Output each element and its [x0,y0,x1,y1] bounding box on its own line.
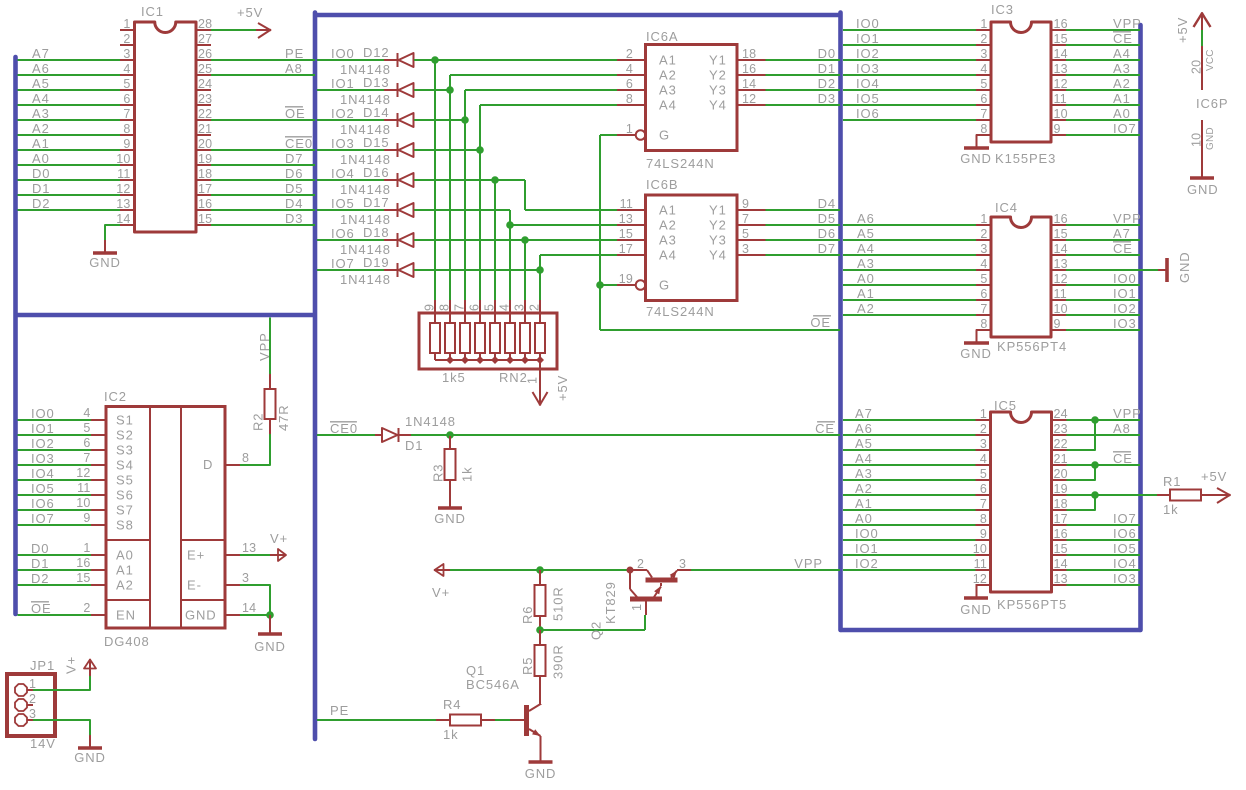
wire net A4 from bus to IC4 [843,254,976,256]
svg-text:28: 28 [198,17,212,31]
svg-text:A7: A7 [855,406,873,421]
svg-text:D3: D3 [285,211,303,226]
wire riser to IC6B A1 [524,180,526,210]
JP1 pad 1 [15,684,27,696]
wire net IO6 from bus to IC2 [18,509,92,511]
svg-text:1: 1 [83,541,90,555]
svg-text:13: 13 [242,541,256,555]
diode D17 1N4148 [384,209,397,211]
svg-text:13: 13 [116,197,130,211]
diode D15 1N4148 [384,149,397,151]
svg-text:9: 9 [742,197,749,211]
wire net IO1 from bus to IC5 [843,554,976,556]
wire net IO3 from IC5 to bus [1067,584,1141,586]
wire D12 output to IC6A A1 [414,59,617,61]
wire net IO6 from bus to IC3 [843,119,976,121]
ground GND at IC2 [269,615,271,634]
svg-text:15: 15 [1054,227,1068,241]
wire net OE from bus to IC2 [18,614,92,616]
wire IC5 pin 18 riser [1067,495,1096,510]
wire net CE from D1 to bus [411,434,840,436]
svg-text:VPP: VPP [1113,211,1142,226]
svg-text:9: 9 [423,304,437,311]
svg-text:74LS244N: 74LS244N [646,304,715,319]
svg-text:V+: V+ [432,585,450,600]
svg-text:D0: D0 [31,541,49,556]
svg-text:R1: R1 [1163,474,1181,489]
svg-text:S7: S7 [116,503,134,518]
wire IC5 pin 22 riser to VPP [1067,420,1096,450]
svg-text:14: 14 [742,77,756,91]
svg-text:11: 11 [974,557,987,571]
wire net VPP from Q2 to bus [691,569,840,571]
svg-text:D14: D14 [363,105,390,120]
svg-text:16: 16 [1054,527,1068,541]
wire OE net to bus [600,329,840,331]
resistor R6 510R [539,570,541,585]
svg-text:IO1: IO1 [856,31,880,46]
svg-text:5: 5 [980,467,987,481]
power symbol IC6P VCC pin [1194,13,1203,28]
wire net OE from IC1 to bus [211,119,315,121]
svg-text:D5: D5 [818,211,836,226]
svg-text:IO4: IO4 [31,466,55,481]
svg-text:3: 3 [980,242,987,256]
wire column4 to IC6A A4 [480,104,617,106]
IC6A pins [617,59,646,61]
ground GND at IC4 pin 13 (rotated) [1158,269,1167,271]
wire net CE0 from IC1 to bus [211,149,315,151]
wire net A7 from bus to IC5 [843,419,976,421]
svg-text:1: 1 [980,407,987,421]
wire net A5 from bus to IC5 [843,449,976,451]
svg-text:A1: A1 [116,563,134,578]
wire net IO7 from bus to diode D19 [317,269,384,271]
wire net IO3 from bus to IC3 [843,74,976,76]
ground GND at IC4 pin 8 [977,330,992,343]
wire IC5 pin 20 riser to CE [1067,465,1096,480]
wire net IO6 from IC5 to bus [1067,539,1141,541]
wire IC2 E+ to V+ arrow [240,554,270,556]
svg-text:D1: D1 [32,181,50,196]
IC IC4 body [991,217,1051,337]
svg-text:+5V: +5V [555,375,570,401]
svg-text:S2: S2 [116,428,134,443]
wire net A6 from bus to IC1 pin 4 [18,74,121,76]
svg-text:A2: A2 [32,121,50,136]
svg-text:2: 2 [29,692,36,706]
svg-text:12: 12 [116,182,130,196]
svg-text:A4: A4 [659,248,677,263]
wire net IO2 from bus to diode D14 [317,119,384,121]
svg-text:RN2: RN2 [499,370,528,385]
svg-text:11: 11 [1054,287,1067,301]
supply +5V arrow at IC1 pin 28 [211,29,257,31]
svg-text:IO2: IO2 [856,46,880,61]
wire net D2 from bus to IC1 pin 13 [18,209,121,211]
svg-text:1k: 1k [460,466,475,482]
wire net A8 at IC5 pin 23 [1067,434,1141,436]
wire net CE0 from bus to D1 [317,434,375,436]
IC1 pins right [196,29,211,31]
svg-text:12: 12 [742,92,756,106]
wire IC2 E- to GND node [240,585,270,615]
wire net A7 from IC4 to bus [1066,239,1140,241]
svg-text:8: 8 [980,122,987,136]
wire net CE from IC3 to bus [1066,44,1140,46]
wire net D0 from bus to IC2 [18,554,92,556]
wire net PE from bus to R4 [317,719,436,721]
svg-text:2: 2 [626,47,633,61]
wire net A4 from bus to IC1 pin 6 [18,104,121,106]
svg-text:D6: D6 [818,226,836,241]
resistor R1 1k [1157,494,1170,496]
node junction G pins [596,281,604,289]
svg-text:IO6: IO6 [856,106,880,121]
wire net VPP from IC3 to bus [1066,29,1140,31]
wire D17 output to column [414,209,510,211]
wire net A6 from bus to IC4 [843,224,976,226]
svg-text:IO7: IO7 [31,511,55,526]
svg-text:IO3: IO3 [1113,571,1137,586]
svg-text:IO7: IO7 [1113,511,1137,526]
resistor R4 1k [436,719,450,721]
svg-text:BC546A: BC546A [466,677,520,692]
svg-text:3: 3 [980,47,987,61]
resistor R3 1k [449,436,451,449]
RN2 common pin to +5V [539,360,541,405]
svg-text:17: 17 [198,182,212,196]
svg-text:IO0: IO0 [1113,271,1137,286]
svg-text:D5: D5 [285,181,303,196]
svg-text:JP1: JP1 [30,658,55,673]
wire net D3 from IC6 to bus [766,104,841,106]
bus top horizontal [313,13,841,18]
svg-text:A0: A0 [857,271,875,286]
wire net PE from IC1 to bus [211,59,315,61]
wire net CE from IC4 to bus [1066,254,1140,256]
wire D15 output to column [414,149,480,151]
svg-text:510R: 510R [551,586,566,621]
svg-text:1: 1 [626,122,633,136]
wire net D2 from IC6 to bus [766,89,841,91]
svg-text:11: 11 [117,167,130,181]
IC2 pins right [225,464,240,466]
wire net IO5 from bus to diode D17 [317,209,384,211]
svg-text:1: 1 [980,17,987,31]
svg-text:PE: PE [285,46,304,61]
svg-text:5: 5 [742,227,749,241]
svg-text:GND: GND [1187,182,1219,197]
svg-text:A1: A1 [1113,91,1131,106]
svg-text:4: 4 [123,62,130,76]
wire net A2 from IC3 to bus [1066,89,1140,91]
svg-text:13: 13 [619,212,633,226]
svg-text:S1: S1 [116,413,134,428]
wire net VPP at IC5 pin 24 [1067,419,1141,421]
svg-text:VPP: VPP [257,332,272,361]
svg-text:17: 17 [1054,512,1068,526]
svg-text:E-: E- [187,578,202,593]
svg-text:A5: A5 [855,436,873,451]
svg-text:K155PE3: K155PE3 [995,151,1056,166]
svg-text:V+: V+ [64,656,79,674]
wire net A4 from bus to IC5 [843,464,976,466]
wire G enable net vertical [600,134,617,136]
wire net A7 from bus to IC1 pin 3 [18,59,121,61]
wire net A1 from bus to IC1 pin 9 [18,149,121,151]
svg-text:D1: D1 [818,61,836,76]
ground GND at JP1 [89,735,91,748]
svg-text:IO1: IO1 [331,76,355,91]
node junction R6/R5/base [536,626,544,634]
wire net IO6 from bus to diode D18 [317,239,384,241]
svg-text:GND: GND [254,639,286,654]
svg-text:Y1: Y1 [709,203,727,218]
svg-text:2: 2 [123,32,130,46]
svg-text:D4: D4 [285,196,303,211]
wire net A0 from bus to IC4 [843,284,976,286]
svg-text:A4: A4 [855,451,873,466]
wire net IO2 from bus to IC2 [18,449,92,451]
svg-text:18: 18 [198,167,212,181]
IC4 pins [976,224,991,226]
svg-text:CE: CE [1113,451,1133,466]
svg-text:6: 6 [626,77,633,91]
svg-text:EN: EN [116,608,136,623]
wire net A0 from IC3 to bus [1066,119,1140,121]
svg-text:16: 16 [1054,17,1068,31]
supply V+ arrow at IC2 E+ [270,554,286,556]
svg-text:A3: A3 [659,233,677,248]
svg-text:9: 9 [83,511,90,525]
wire column8 to IC6B A4 [540,254,617,256]
svg-text:GND: GND [960,151,992,166]
svg-text:A0: A0 [32,151,50,166]
svg-text:15: 15 [1054,542,1068,556]
svg-text:S6: S6 [116,488,134,503]
svg-text:S8: S8 [116,518,134,533]
wire net D5 from IC1 to bus [211,194,315,196]
wire IC2 D output to R2 [240,434,270,465]
svg-text:R4: R4 [443,697,461,712]
svg-text:20: 20 [1054,467,1068,481]
wire net A3 from bus to IC1 pin 7 [18,119,121,121]
svg-text:IO1: IO1 [31,421,55,436]
svg-text:V+: V+ [270,531,288,546]
svg-text:D13: D13 [363,75,390,90]
wire net A0 from bus to IC5 [843,524,976,526]
svg-text:D7: D7 [818,241,836,256]
svg-text:GND: GND [960,346,992,361]
svg-text:IC6P: IC6P [1196,96,1229,111]
svg-text:A1: A1 [855,496,873,511]
svg-text:6: 6 [123,92,130,106]
svg-text:5: 5 [980,272,987,286]
wire net IO2 from bus to IC3 [843,59,976,61]
wire net A4 from IC3 to bus [1066,59,1140,61]
svg-text:7: 7 [83,451,90,465]
svg-text:IO6: IO6 [31,496,55,511]
svg-text:D1: D1 [405,438,423,453]
wire net A0 from bus to IC1 pin 10 [18,164,121,166]
wire net IO1 from bus to IC2 [18,434,92,436]
diode D13 1N4148 [384,89,397,91]
wire D16 output to column [414,179,495,181]
svg-text:3: 3 [980,437,987,451]
svg-text:A2: A2 [659,218,677,233]
svg-text:A3: A3 [855,466,873,481]
svg-text:24: 24 [1054,407,1068,421]
svg-text:R6: R6 [520,606,535,624]
svg-text:CE0: CE0 [285,136,313,151]
wire net D0 from bus to IC1 pin 11 [18,179,121,181]
wire net D7 from IC6 to bus [766,254,841,256]
wire net IO7 from IC5 to bus [1067,524,1141,526]
svg-text:7: 7 [980,302,987,316]
svg-text:1k5: 1k5 [442,370,466,385]
svg-text:10: 10 [973,542,987,556]
svg-text:24: 24 [198,77,212,91]
svg-text:8: 8 [242,451,249,465]
svg-text:8: 8 [626,92,633,106]
svg-text:1: 1 [123,17,130,31]
node junction R1 riser [1091,491,1099,499]
svg-text:A3: A3 [857,256,875,271]
svg-text:16: 16 [76,556,90,570]
wire net IO0 from IC4 to bus [1066,284,1140,286]
svg-text:13: 13 [1054,62,1068,76]
wire net A5 from bus to IC1 pin 5 [18,89,121,91]
wire net D5 from IC6 to bus [766,224,841,226]
svg-text:9: 9 [1054,317,1061,331]
svg-text:A3: A3 [1113,61,1131,76]
svg-text:R2: R2 [251,413,266,431]
svg-text:IO3: IO3 [856,61,880,76]
svg-text:11: 11 [1054,92,1067,106]
svg-text:6: 6 [980,482,987,496]
svg-text:A7: A7 [32,46,50,61]
svg-text:8: 8 [123,122,130,136]
svg-text:GND: GND [185,608,217,623]
svg-text:3: 3 [679,557,686,571]
IC2 internal dividers [149,407,151,629]
ground GND at IC3 pin 8 [977,135,992,148]
wire net R1 at IC5 pin 19 [1067,494,1158,496]
wire column2 to IC6A A2 [450,74,617,76]
svg-text:D12: D12 [363,45,390,60]
svg-text:IO4: IO4 [331,166,355,181]
svg-text:15: 15 [198,212,212,226]
svg-text:15: 15 [76,571,90,585]
bus left vertical (address/data bus) [13,57,18,614]
svg-text:IO2: IO2 [855,556,879,571]
wire D13 output to column [414,89,450,91]
wire net IO4 from bus to IC2 [18,479,92,481]
svg-text:20: 20 [198,137,212,151]
wire net IO7 from bus to IC2 [18,524,92,526]
IC IC6A 74LS244N body [646,45,738,151]
wire net VPP from IC4 to bus [1066,224,1140,226]
svg-text:DG408: DG408 [104,634,150,649]
IC3 pins [976,29,991,31]
svg-text:GND: GND [960,602,992,617]
svg-text:12: 12 [1054,272,1068,286]
resistor network RN2 pins [434,300,436,323]
svg-text:IO5: IO5 [1113,541,1137,556]
svg-text:4: 4 [83,406,90,420]
svg-text:Y1: Y1 [709,53,727,68]
IC5 pins [976,419,991,421]
svg-text:22: 22 [1054,437,1068,451]
supply +5V arrow at RN2 (down) [533,392,541,406]
wire net IO5 from IC5 to bus [1067,554,1141,556]
wire net IO4 from IC5 to bus [1067,569,1141,571]
svg-text:A4: A4 [1113,46,1131,61]
svg-text:23: 23 [198,92,212,106]
svg-text:D3: D3 [818,91,836,106]
svg-text:A5: A5 [32,76,50,91]
svg-text:4: 4 [980,257,987,271]
svg-text:6: 6 [980,287,987,301]
svg-text:A1: A1 [659,203,677,218]
wire net A3 from bus to IC4 [843,269,976,271]
svg-text:D19: D19 [363,255,390,270]
svg-text:D15: D15 [363,135,390,150]
node junction R6 top [536,566,544,574]
bus middle-left vertical [313,13,318,740]
svg-text:IO0: IO0 [855,526,879,541]
wire net A6 from bus to IC5 [843,434,976,436]
resistor R5 390R [539,630,541,645]
svg-text:1N4148: 1N4148 [340,272,391,287]
svg-text:IO7: IO7 [1113,121,1137,136]
svg-text:19: 19 [198,152,212,166]
svg-text:IC6B: IC6B [646,177,679,192]
svg-text:A3: A3 [659,83,677,98]
wire net D0 from IC6 to bus [766,59,841,61]
svg-text:1k: 1k [1163,502,1179,517]
svg-text:A2: A2 [857,301,875,316]
svg-text:A1: A1 [659,53,677,68]
junction dots on columns [431,56,439,64]
IC6A G pin with bubble [617,134,636,136]
svg-text:G: G [659,128,670,143]
wire net IO3 from IC4 to bus [1066,329,1140,331]
svg-text:A8: A8 [285,61,303,76]
svg-text:1N4148: 1N4148 [405,414,456,429]
svg-text:18: 18 [1054,497,1068,511]
svg-text:21: 21 [1054,452,1068,466]
svg-text:CE0: CE0 [330,421,358,436]
diode D18 1N4148 [384,239,397,241]
svg-text:5: 5 [980,77,987,91]
IC IC3 body [991,22,1051,142]
svg-text:4: 4 [980,452,987,466]
wire net IO0 from bus to diode D12 [317,59,384,61]
connector JP1 body [7,674,55,736]
svg-text:26: 26 [198,47,212,61]
svg-text:D2: D2 [818,76,836,91]
ground GND at R3 [449,495,451,508]
svg-text:A0: A0 [855,511,873,526]
svg-text:IC2: IC2 [104,389,127,404]
svg-text:2: 2 [637,557,644,571]
svg-text:IO2: IO2 [1113,301,1137,316]
wire net CE at IC5 pin 21 [1067,464,1141,466]
wire net A3 from IC3 to bus [1066,74,1140,76]
wire net D3 from IC1 to bus [211,224,315,226]
